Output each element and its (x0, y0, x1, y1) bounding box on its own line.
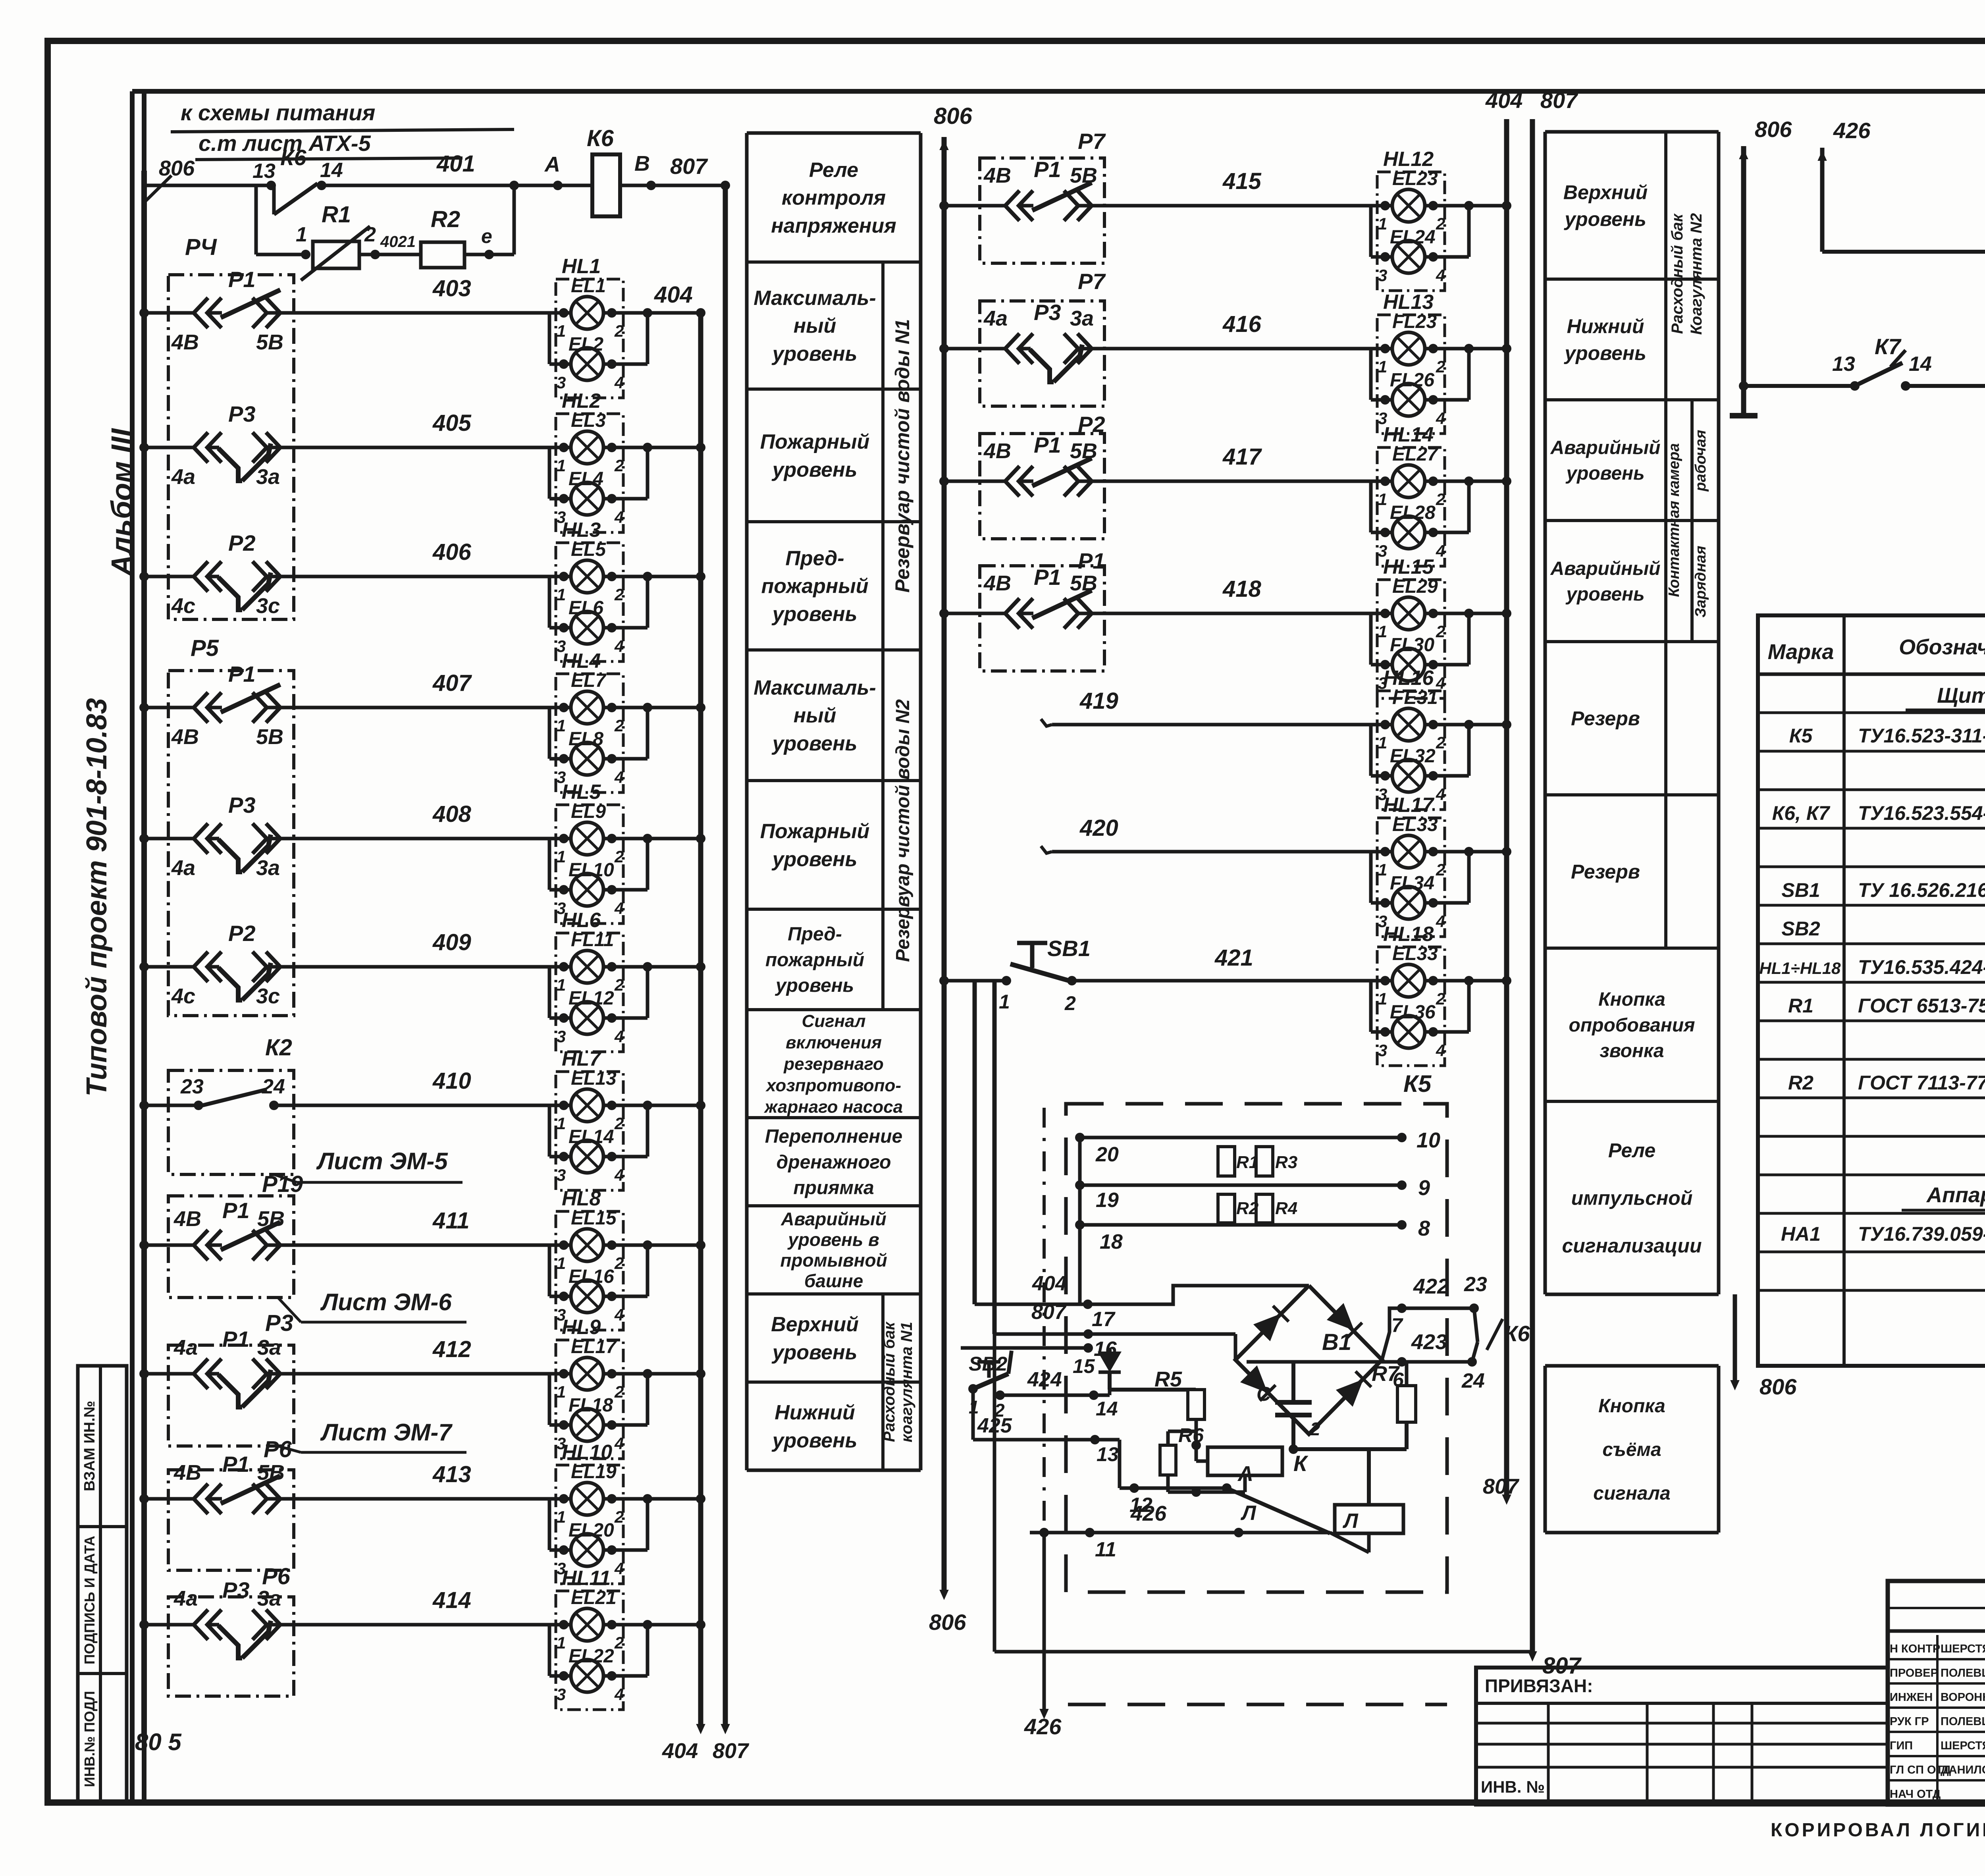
indicator HL13 wiring (1105, 347, 1392, 351)
svg-text:С: С (1257, 1383, 1271, 1405)
svg-text:3с: 3с (256, 984, 280, 1008)
svg-text:R5: R5 (1154, 1367, 1182, 1391)
svg-text:уровень: уровень (771, 342, 858, 365)
wire 807 into terminal 16 (992, 981, 997, 1334)
parts table grid (1758, 615, 1985, 1366)
svg-text:ПОЛЕВЩИКОВА: ПОЛЕВЩИКОВА (1941, 1667, 1985, 1679)
svg-text:2: 2 (1436, 733, 1445, 752)
svg-text:23: 23 (1464, 1273, 1487, 1296)
svg-text:HL9: HL9 (562, 1316, 601, 1339)
svg-text:FL18: FL18 (569, 1395, 613, 1416)
lamp EL6 (571, 611, 603, 644)
k5 coil to L wire (1330, 1533, 1369, 1552)
svg-text:Р1: Р1 (222, 1198, 250, 1223)
bus 404 middle (1504, 119, 1509, 1495)
svg-text:1: 1 (1378, 733, 1387, 752)
svg-text:ИНВ. №: ИНВ. № (1481, 1778, 1545, 1796)
svg-text:R6: R6 (1178, 1424, 1204, 1446)
svg-text:2: 2 (614, 976, 624, 994)
svg-text:Кнопка: Кнопка (1598, 1396, 1665, 1417)
svg-text:Аппаратура по месту.: Аппаратура по месту. (1926, 1183, 1985, 1207)
svg-text:промывной: промывной (780, 1250, 887, 1271)
svg-text:EL8: EL8 (569, 729, 603, 750)
svg-text:9: 9 (1418, 1176, 1430, 1200)
svg-text:хозпротивопо-: хозпротивопо- (765, 1076, 901, 1095)
relay group box K2 (168, 1070, 294, 1174)
svg-text:2: 2 (1436, 357, 1445, 376)
svg-text:3с: 3с (256, 594, 280, 618)
svg-text:R2: R2 (431, 206, 460, 232)
lamp EL8 (571, 742, 603, 775)
contact Р3 4а-3а (168, 446, 196, 449)
svg-text:421: 421 (1214, 945, 1253, 971)
svg-text:3а: 3а (1070, 307, 1094, 330)
wire 426 to relay K7 (1822, 250, 1985, 254)
svg-text:EL13: EL13 (571, 1068, 617, 1089)
svg-text:ШЕРСТЯКОВА: ШЕРСТЯКОВА (1941, 1739, 1985, 1752)
svg-text:ТУ16.739.059-76: ТУ16.739.059-76 (1858, 1223, 1985, 1245)
svg-text:415: 415 (1222, 168, 1262, 194)
426 drop to bus (1043, 1108, 1046, 1533)
HL6 output wires to bus (607, 962, 617, 972)
svg-text:2: 2 (614, 585, 624, 604)
svg-text:Резервуар чистой воды N1: Резервуар чистой воды N1 (891, 319, 913, 592)
stamp: privyazan block (1476, 1668, 1888, 1805)
HL18 output wires to bus (1428, 976, 1438, 985)
legend column right: frame (1544, 132, 1547, 1294)
resistor R2 (K5) (1218, 1194, 1235, 1223)
svg-text:408: 408 (432, 801, 472, 827)
HL16 output wires to bus (1428, 720, 1438, 729)
svg-text:Пред-: Пред- (785, 547, 844, 570)
node A (553, 181, 563, 190)
svg-text:Нижний: Нижний (1567, 315, 1644, 337)
indicator HL18 box (1377, 947, 1445, 1066)
wire 419 (spare) (1041, 719, 1052, 726)
wire 423 (1247, 1360, 1472, 1364)
wire 413 (144, 1497, 168, 1501)
svg-text:К6: К6 (280, 145, 306, 170)
lamp EL20 (571, 1534, 603, 1566)
svg-text:4В: 4В (983, 164, 1011, 187)
svg-text:Лист ЭМ-5: Лист ЭМ-5 (316, 1148, 448, 1174)
svg-text:3а: 3а (256, 465, 280, 489)
svg-text:ВОРОНКО: ВОРОНКО (1941, 1691, 1985, 1704)
contact Р1 4а-3а (168, 1372, 196, 1376)
svg-text:4а: 4а (171, 856, 195, 880)
svg-text:уровень: уровень (1563, 342, 1646, 364)
lamp EL10 (571, 873, 603, 906)
svg-text:1: 1 (557, 976, 566, 994)
wire 414 (144, 1623, 168, 1627)
indicator HL18 wiring (1105, 979, 1392, 983)
svg-text:HL15: HL15 (1383, 555, 1434, 578)
wire 406 (144, 575, 168, 578)
indicator HL11 box (556, 1591, 623, 1710)
lamp EL4 (571, 482, 603, 515)
bridge diode 3 (1240, 1365, 1276, 1402)
lamp EL28 (1392, 516, 1425, 549)
svg-text:1: 1 (557, 1633, 566, 1652)
svg-text:807: 807 (1483, 1475, 1520, 1498)
svg-text:Р6: Р6 (262, 1564, 291, 1589)
svg-text:Р7: Р7 (1078, 129, 1106, 154)
wire 401 (144, 184, 271, 187)
svg-text:806: 806 (159, 156, 195, 180)
svg-text:413: 413 (432, 1461, 471, 1487)
svg-text:К5: К5 (1789, 725, 1813, 747)
svg-text:R1: R1 (322, 202, 351, 228)
svg-text:Марка: Марка (1768, 640, 1834, 664)
bus 806 right (1741, 146, 1746, 416)
svg-text:2: 2 (1436, 622, 1445, 641)
svg-text:Максималь-: Максималь- (754, 287, 876, 310)
lamp FL26 (1392, 384, 1425, 416)
svg-text:Р1: Р1 (228, 267, 256, 292)
indicator HL17 box (1377, 818, 1445, 937)
resistor R6 (1160, 1445, 1176, 1475)
node B (620, 184, 725, 187)
resistor R1 (313, 241, 359, 268)
indicator HL3 wiring (294, 575, 571, 578)
lamp EL33 (1392, 835, 1425, 868)
bus 404 left (698, 312, 703, 1725)
svg-text:4021: 4021 (380, 233, 416, 251)
svg-text:3: 3 (557, 1166, 566, 1184)
wire 407 (144, 706, 168, 710)
svg-text:3: 3 (1378, 266, 1387, 285)
inner frame double vertical left (130, 91, 135, 1803)
contact Р3 4а-3а (168, 1623, 196, 1627)
svg-text:5В: 5В (256, 725, 283, 749)
svg-text:EL10: EL10 (569, 860, 614, 881)
lamp FL18 (571, 1409, 603, 1441)
wire 404 into terminal 17 (973, 981, 977, 1304)
svg-text:1: 1 (296, 223, 307, 246)
svg-text:2: 2 (1436, 214, 1445, 233)
svg-text:EL19: EL19 (571, 1461, 617, 1483)
svg-text:426: 426 (1833, 118, 1871, 143)
svg-text:А: А (544, 152, 560, 176)
svg-text:1: 1 (557, 716, 566, 735)
svg-text:5В: 5В (1070, 571, 1097, 595)
node e (464, 253, 514, 256)
svg-text:уровень: уровень (771, 1429, 858, 1452)
svg-text:SB2: SB2 (1781, 918, 1820, 940)
lamp EL17 (571, 1357, 603, 1390)
svg-text:Лист ЭМ-6: Лист ЭМ-6 (320, 1289, 452, 1315)
svg-text:FL30: FL30 (1390, 634, 1434, 656)
svg-text:К7: К7 (1875, 334, 1902, 359)
resistor R1 (K5) (1218, 1147, 1235, 1176)
lamp FL30 (1392, 648, 1425, 681)
svg-text:Пред-: Пред- (788, 924, 842, 945)
svg-text:4: 4 (614, 1166, 624, 1184)
svg-text:приямка: приямка (793, 1178, 874, 1199)
svg-text:4В: 4В (171, 330, 199, 354)
svg-text:807: 807 (670, 154, 708, 179)
svg-text:Кнопка: Кнопка (1598, 989, 1665, 1010)
bridge diode 2 (1327, 1303, 1363, 1339)
svg-text:4: 4 (614, 508, 624, 526)
svg-text:423: 423 (1411, 1330, 1447, 1354)
capacitor C (1291, 1362, 1295, 1402)
svg-text:417: 417 (1222, 444, 1262, 470)
svg-text:4: 4 (1436, 912, 1445, 931)
svg-text:R1: R1 (1788, 995, 1813, 1017)
svg-text:17: 17 (1092, 1308, 1116, 1331)
indicator HL4 wiring (294, 706, 571, 710)
svg-text:импульсной: импульсной (1571, 1187, 1693, 1209)
svg-text:2: 2 (614, 456, 624, 475)
contact K6 13-14 (272, 185, 276, 214)
svg-text:406: 406 (432, 539, 472, 565)
svg-text:ТУ 16.526.216-78: ТУ 16.526.216-78 (1858, 879, 1985, 901)
svg-text:контроля: контроля (782, 187, 886, 210)
svg-text:сигнализации: сигнализации (1562, 1235, 1702, 1257)
indicator HL2 box (556, 414, 623, 532)
svg-text:80 5: 80 5 (135, 1729, 182, 1755)
svg-text:404: 404 (1032, 1272, 1067, 1295)
svg-text:Р1: Р1 (1078, 548, 1105, 573)
svg-text:EL5: EL5 (571, 539, 606, 560)
svg-text:4: 4 (614, 1685, 624, 1704)
svg-text:3а: 3а (256, 856, 280, 880)
relay group box P3 (168, 1345, 294, 1446)
svg-text:Расходный бак: Расходный бак (1669, 213, 1686, 334)
bus 807 left (723, 185, 728, 1725)
indicator HL10 wiring (294, 1497, 571, 1501)
svg-text:EL14: EL14 (569, 1126, 614, 1147)
svg-text:уровень: уровень (771, 848, 858, 871)
svg-text:24: 24 (262, 1075, 285, 1098)
relay coil K5 internal (1335, 1505, 1403, 1533)
svg-text:Обозначение: Обозначение (1899, 635, 1985, 659)
svg-text:13: 13 (1832, 353, 1855, 376)
contact Р1 (980, 480, 1008, 483)
svg-text:R2: R2 (1236, 1199, 1259, 1218)
svg-text:4: 4 (1436, 409, 1445, 428)
svg-text:Верхний: Верхний (771, 1313, 859, 1336)
svg-text:HL17: HL17 (1383, 794, 1434, 817)
margin stamp column (78, 1366, 127, 1803)
indicator HL6 box (556, 933, 623, 1052)
svg-text:HL2: HL2 (562, 389, 601, 413)
HL11 output wires to bus (607, 1620, 617, 1629)
relay group box P4 (168, 275, 294, 619)
svg-text:Р7: Р7 (1078, 269, 1106, 294)
svg-text:EL12: EL12 (569, 988, 614, 1009)
svg-text:Резерв: Резерв (1571, 861, 1640, 883)
bridge diode 4 (1336, 1371, 1372, 1407)
relay contact box row 418 (980, 566, 1104, 671)
svg-text:3а: 3а (257, 1336, 281, 1359)
HL8 output wires to bus (607, 1240, 617, 1250)
svg-text:3: 3 (557, 1685, 566, 1704)
svg-text:А: А (1237, 1462, 1253, 1486)
svg-text:уровень в: уровень в (787, 1229, 879, 1250)
contact Р1 4В-5В (168, 1497, 196, 1501)
svg-text:2: 2 (614, 847, 624, 866)
svg-text:EL2: EL2 (569, 334, 603, 355)
lamp EL16 (571, 1280, 603, 1313)
legend column left: frame (745, 133, 749, 1470)
svg-text:EL1: EL1 (571, 276, 606, 297)
svg-text:5В: 5В (1070, 439, 1097, 463)
stamp: main title block (1888, 1581, 1985, 1805)
svg-text:410: 410 (432, 1068, 471, 1094)
lamp EL2 (571, 348, 603, 380)
wire 420 (spare) (1041, 846, 1052, 853)
relay coil K6 (592, 154, 620, 216)
svg-text:7: 7 (1391, 1314, 1403, 1336)
svg-text:EL6: EL6 (569, 598, 603, 619)
svg-text:419: 419 (1079, 688, 1118, 714)
relay group box P6 (168, 1470, 294, 1570)
svg-text:Реле: Реле (1608, 1139, 1655, 1162)
HL12 output wires to bus (1428, 201, 1438, 210)
svg-text:R1: R1 (1236, 1153, 1258, 1172)
svg-text:HL16: HL16 (1383, 667, 1434, 690)
svg-text:4: 4 (1436, 785, 1445, 804)
svg-text:SB1: SB1 (1047, 936, 1091, 961)
svg-text:сигнала: сигнала (1593, 1483, 1670, 1504)
indicator HL13 box (1377, 315, 1445, 434)
relay contact box row 415 (980, 158, 1104, 263)
HL10 output wires to bus (607, 1494, 617, 1504)
svg-text:404: 404 (654, 282, 693, 308)
svg-text:к схемы питания: к схемы питания (181, 100, 375, 125)
lamp FL23 (1392, 332, 1425, 365)
svg-text:412: 412 (432, 1336, 471, 1362)
svg-text:ИНВ.№ ПОДЛ: ИНВ.№ ПОДЛ (81, 1691, 98, 1787)
svg-text:422: 422 (1413, 1274, 1449, 1298)
lamp EL21 (571, 1608, 603, 1641)
wire 411 (144, 1244, 168, 1247)
svg-text:EL3: EL3 (571, 410, 606, 431)
HL14 output wires to bus (1428, 476, 1438, 486)
push button SB1 (944, 979, 1006, 983)
svg-text:Пожарный: Пожарный (760, 820, 870, 843)
svg-text:4: 4 (614, 1434, 624, 1453)
svg-text:1: 1 (999, 991, 1010, 1013)
note leader line (145, 175, 172, 202)
svg-text:R2: R2 (1788, 1072, 1813, 1094)
svg-text:Аварийный: Аварийный (1550, 437, 1661, 458)
svg-text:19: 19 (1096, 1189, 1119, 1212)
svg-text:Р2: Р2 (228, 921, 256, 946)
lamp EL12 (571, 1002, 603, 1034)
lamp EL7 (571, 691, 603, 724)
HL15 output wires to bus (1428, 609, 1438, 618)
HL1 output wires to bus (607, 308, 617, 318)
contact K2 23-24 (168, 1104, 198, 1107)
svg-text:4а: 4а (983, 307, 1008, 330)
lamp FL11 (571, 951, 603, 983)
svg-text:Р3: Р3 (265, 1310, 293, 1336)
svg-text:Аварийный: Аварийный (1550, 558, 1661, 579)
branch to resistors (254, 185, 258, 255)
svg-text:806: 806 (1760, 1374, 1797, 1399)
svg-text:ПРОВЕР: ПРОВЕР (1890, 1667, 1938, 1679)
svg-text:HL4: HL4 (562, 650, 601, 673)
wire 410 (144, 1104, 168, 1107)
svg-text:Р1: Р1 (222, 1452, 250, 1477)
svg-text:EL16: EL16 (569, 1266, 614, 1287)
lamp EL1 (571, 297, 603, 329)
wire 807 bottom (993, 1334, 996, 1652)
svg-text:4: 4 (614, 768, 624, 787)
lamp EL36 (1392, 1016, 1425, 1048)
svg-text:FL26: FL26 (1390, 370, 1434, 391)
svg-text:1: 1 (1378, 357, 1387, 376)
svg-text:HL11: HL11 (562, 1567, 611, 1590)
wire up to 401 (513, 185, 516, 255)
svg-text:К: К (1293, 1451, 1309, 1476)
lamp EL5 (571, 560, 603, 593)
lamp EL15 (571, 1229, 603, 1261)
svg-text:416: 416 (1222, 311, 1262, 337)
svg-text:HL3: HL3 (562, 519, 601, 542)
svg-text:4В: 4В (983, 439, 1011, 463)
K5 internal resistor network R1-R4 (1080, 1136, 1402, 1139)
svg-text:К5: К5 (1403, 1070, 1432, 1097)
svg-text:4: 4 (614, 1305, 624, 1324)
svg-text:Л: Л (1342, 1510, 1359, 1533)
svg-text:Нижний: Нижний (775, 1401, 855, 1424)
svg-text:2: 2 (614, 1633, 624, 1652)
resistor R7 (1397, 1386, 1416, 1422)
wire 416 (944, 347, 980, 351)
svg-text:жарнаго насоса: жарнаго насоса (764, 1097, 903, 1116)
svg-text:13: 13 (1097, 1443, 1119, 1465)
svg-text:1: 1 (557, 1254, 566, 1273)
svg-text:411: 411 (432, 1208, 469, 1234)
svg-text:2: 2 (614, 1382, 624, 1401)
indicator HL7 box (556, 1072, 623, 1190)
HL7 output wires to bus (607, 1101, 617, 1110)
svg-text:HL10: HL10 (562, 1441, 612, 1464)
indicator HL15 box (1377, 580, 1445, 698)
resistor R4 (K5) (1256, 1194, 1273, 1223)
svg-text:уровень: уровень (771, 458, 858, 481)
svg-text:HL14: HL14 (1383, 423, 1434, 446)
indicator HL14 wiring (1105, 480, 1392, 483)
svg-text:4В: 4В (983, 571, 1011, 595)
svg-text:Р3: Р3 (228, 401, 256, 426)
svg-text:Расходный бак: Расходный бак (881, 1321, 898, 1442)
svg-text:съёма: съёма (1602, 1439, 1661, 1460)
svg-text:Реле: Реле (809, 159, 858, 182)
svg-text:уровень: уровень (1565, 584, 1644, 605)
indicator HL16 wiring (1052, 723, 1392, 727)
contact Р1 (980, 204, 1008, 208)
contact Р3 4а-3а (168, 837, 196, 841)
svg-text:418: 418 (1222, 576, 1262, 602)
svg-text:409: 409 (432, 929, 471, 955)
svg-text:Коагулянта N2: Коагулянта N2 (1688, 213, 1705, 335)
svg-text:4В: 4В (173, 1207, 201, 1231)
svg-text:407: 407 (432, 670, 472, 696)
bus 806 middle (942, 137, 947, 1590)
svg-text:13: 13 (252, 160, 276, 183)
svg-text:2: 2 (614, 1254, 624, 1273)
svg-text:ПОЛЕВЩИКОВА: ПОЛЕВЩИКОВА (1941, 1715, 1985, 1728)
svg-text:420: 420 (1079, 815, 1118, 841)
svg-text:EL15: EL15 (571, 1208, 617, 1229)
svg-text:4: 4 (614, 637, 624, 656)
relay contact box row 417 (980, 434, 1104, 539)
